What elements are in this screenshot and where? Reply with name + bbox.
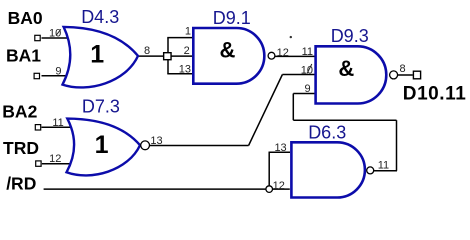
wire junction tie vertical D9.1 bbox=[167, 38, 169, 74]
svg-text:1: 1 bbox=[95, 131, 109, 159]
svg-text:12: 12 bbox=[273, 180, 285, 192]
svg-text:BA1: BA1 bbox=[6, 46, 41, 66]
svg-text:1: 1 bbox=[90, 40, 104, 68]
wire D9.1 pin 2 bbox=[168, 55, 192, 57]
terminal square BA1 bbox=[34, 73, 39, 78]
slash of zero in pin 10 of D9.3 bbox=[307, 64, 312, 73]
svg-text:12: 12 bbox=[49, 153, 61, 165]
svg-text:11: 11 bbox=[302, 46, 313, 58]
wire D6.3 pin 13 bbox=[269, 151, 291, 153]
wire D4.3 output to junction square bbox=[137, 55, 168, 57]
junction circle /RD node bbox=[266, 186, 273, 193]
svg-text:1: 1 bbox=[185, 26, 191, 38]
wire vertical from D9.3 pin 9 down bbox=[292, 94, 294, 121]
wire D9.3 pin 10 bbox=[282, 74, 314, 76]
NAND gate D9.3 body bbox=[316, 46, 387, 103]
svg-text:/RD: /RD bbox=[6, 174, 36, 194]
svg-text:13: 13 bbox=[179, 64, 191, 76]
bubble D6.3 output bbox=[367, 167, 374, 174]
wire D9.3 output to terminal bbox=[398, 74, 413, 76]
bubble D7.3 output bbox=[141, 141, 150, 150]
wire D9.3 pin 9 bbox=[293, 93, 314, 95]
bubble D9.1 output bbox=[268, 52, 275, 59]
svg-text:BA2: BA2 bbox=[2, 101, 37, 121]
terminal square BA0 bbox=[35, 35, 40, 40]
terminal square output D10.11 bbox=[413, 71, 420, 79]
wire TRD to D7.3 pin 12 bbox=[42, 163, 72, 165]
wire /RD to D6.3 pin 12 bbox=[44, 188, 290, 190]
svg-text:13: 13 bbox=[150, 135, 162, 147]
bubble D9.3 output bbox=[390, 71, 398, 79]
NAND gate D9.1 body bbox=[193, 28, 264, 84]
wire D6.3 output bbox=[374, 170, 397, 172]
NAND gate D6.3 body bbox=[291, 142, 365, 197]
terminal square TRD bbox=[36, 161, 41, 166]
svg-text:D7.3: D7.3 bbox=[82, 97, 120, 117]
svg-text:BA0: BA0 bbox=[8, 8, 43, 28]
svg-text:13: 13 bbox=[274, 142, 286, 154]
wire diagonal D7.3 out to D9.3 pin 10 bbox=[249, 75, 283, 146]
svg-text:9: 9 bbox=[304, 83, 310, 95]
wire BA1 to D4.3 pin 9 bbox=[42, 75, 69, 77]
wire BA0 to D4.3 pin 10 bbox=[42, 37, 70, 39]
wire BA2 to D7.3 pin 11 bbox=[42, 126, 74, 128]
svg-text:11: 11 bbox=[52, 117, 63, 129]
wire D7.3 output horizontal bbox=[150, 145, 249, 147]
svg-text:12: 12 bbox=[277, 47, 289, 59]
svg-text:9: 9 bbox=[55, 65, 61, 77]
svg-text:10: 10 bbox=[49, 28, 61, 40]
wire vertical right of D6.3 bbox=[396, 120, 398, 171]
svg-text:TRD: TRD bbox=[3, 138, 39, 158]
wire D6.3 tie vertical bbox=[268, 152, 270, 189]
svg-text:11: 11 bbox=[378, 160, 389, 172]
wire D9.1 pin 13 bbox=[167, 73, 192, 75]
wire D9.1 output to D9.3 pin 11 bbox=[275, 55, 315, 57]
svg-text:D10.11: D10.11 bbox=[403, 84, 467, 105]
svg-text:&: & bbox=[338, 56, 354, 81]
stray dot bbox=[290, 36, 292, 38]
junction square node D9.1 input bbox=[164, 53, 171, 60]
OR gate D7.3 body bbox=[67, 119, 141, 176]
terminal square BA2 bbox=[35, 125, 40, 130]
wire D9.1 pin 1 bbox=[167, 37, 192, 39]
wire horizontal feedback above D6.3 bbox=[293, 119, 396, 121]
OR gate D4.3 body bbox=[63, 27, 139, 88]
svg-text:D6.3: D6.3 bbox=[308, 123, 346, 143]
svg-text:8: 8 bbox=[400, 63, 406, 75]
svg-text:D9.1: D9.1 bbox=[213, 8, 251, 28]
svg-text:D9.3: D9.3 bbox=[331, 26, 369, 46]
slash of zero in pin 10 of D4.3 bbox=[56, 29, 61, 35]
svg-text:2: 2 bbox=[184, 45, 190, 57]
svg-text:&: & bbox=[220, 37, 236, 62]
svg-text:D4.3: D4.3 bbox=[81, 7, 119, 27]
svg-text:8: 8 bbox=[144, 45, 150, 57]
